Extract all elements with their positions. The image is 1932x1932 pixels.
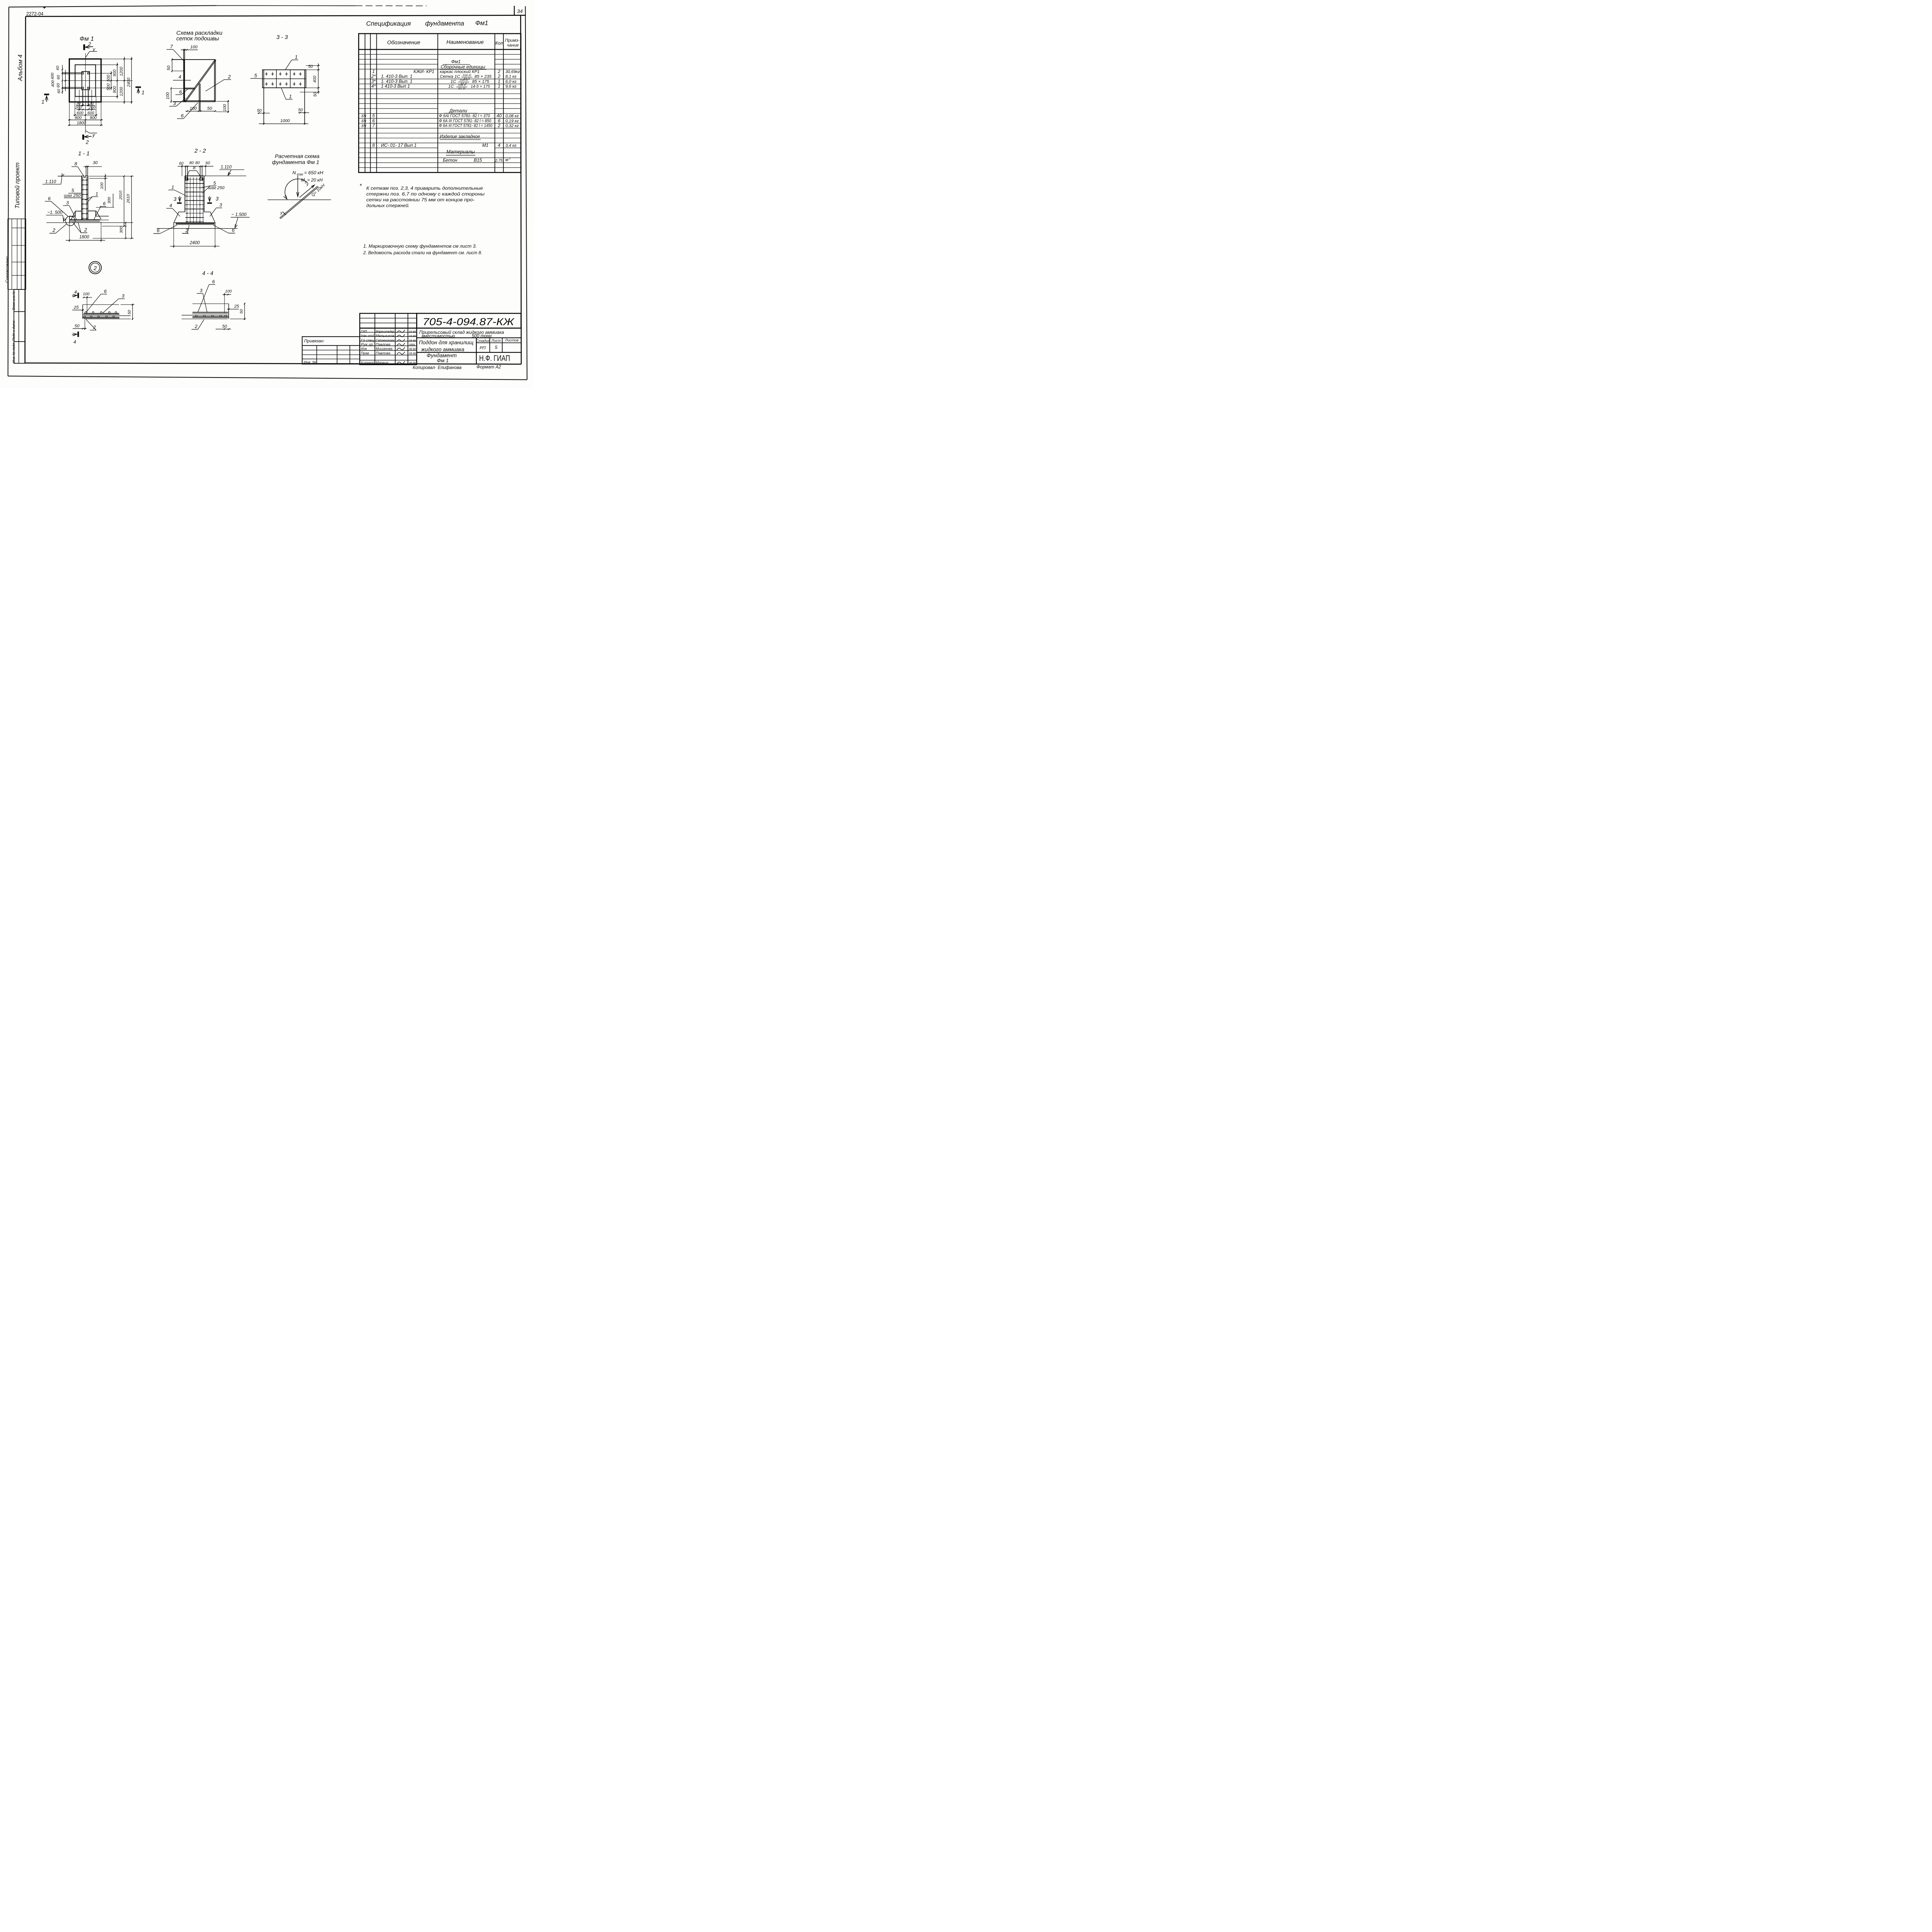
svg-text:6: 6 [212,279,215,284]
svg-text:М1: М1 [482,143,488,148]
svg-text:Маркин: Маркин [376,361,388,365]
svg-text:Спецификация: Спецификация [366,20,411,27]
svg-text:50: 50 [240,309,244,314]
calc scheme inclined axis [280,182,318,219]
svg-text:85 × 235: 85 × 235 [474,75,492,79]
detail 2 dim 100 [83,292,92,313]
svg-text:0,19 кг: 0,19 кг [505,119,519,123]
section 2-2 footing mesh slab [176,223,214,224]
svg-text:6: 6 [103,201,105,206]
svg-text:200: 200 [88,105,95,110]
title block Фундамент Фм1 [417,352,457,364]
svg-text:В15: В15 [474,157,482,163]
svg-text:34: 34 [517,9,523,14]
svg-text:3: 3 [219,202,222,207]
svg-text:705-4-094.87-КЖ: 705-4-094.87-КЖ [423,317,515,328]
svg-text:Инж: Инж [361,347,367,351]
svg-text:Поддон для хранилищ: Поддон для хранилищ [419,340,474,345]
mesh layout dim 50 left [167,58,184,72]
svg-text:Бетон: Бетон [443,157,457,163]
calc scheme force N [293,170,323,197]
plan axis centerline horizontal [63,80,103,82]
svg-text:Взам инв.№: Взам инв.№ [12,291,15,310]
svg-text:6: 6 [104,289,107,294]
svg-text:08 86: 08 86 [409,361,416,365]
svg-text:3*: 3* [371,79,376,84]
svg-text:400: 400 [51,73,55,80]
left margin table Согласовано [5,219,26,289]
svg-text:Лист: Лист [491,338,501,343]
section 4-4 label 6 [198,279,215,312]
svg-text:жидкого аммиака: жидкого аммиака [421,347,464,352]
svg-text:80: 80 [195,161,200,165]
svg-text:2010: 2010 [119,190,123,200]
svg-text:2: 2 [194,324,197,329]
plan left dimensions 60 400 60 [51,65,66,94]
svg-text:3: 3 [66,200,69,206]
detail 2 dim 50 bottom [73,320,87,330]
svg-text:Павлова: Павлова [376,343,390,347]
section 1-1 labels 5 шаг 250 and 1 [64,188,98,202]
svg-text:Маркштедер: Маркштедер [376,330,395,334]
title block staff labels [361,330,416,365]
svg-text:6: 6 [179,89,182,95]
section 1-1 dim 30 top [83,160,102,167]
svg-text:50: 50 [128,310,132,315]
svg-text:Мельников: Мельников [376,334,394,338]
svg-text:8: 8 [372,143,375,148]
svg-text:стержни поз. 6,7 по од: стержни поз. 6,7 по одному с каждой стор… [366,191,485,197]
plan foundation middle square [75,65,95,97]
svg-text:7: 7 [170,44,173,49]
svg-text:2: 2 [84,227,87,233]
svg-text:3: 3 [173,196,177,202]
svg-text:6: 6 [48,196,51,201]
svg-text:30: 30 [93,160,98,165]
svg-text:0,08 кг: 0,08 кг [505,114,519,119]
mesh layout label 6 [175,89,188,95]
svg-text:Инв. № подл: Инв. № подл [12,343,15,363]
svg-text:60: 60 [56,75,61,80]
svg-text:Прав: Прав [361,351,369,355]
svg-text:4: 4 [73,339,76,345]
title block project name [419,330,504,339]
plan anchor bolt tails left [62,73,82,88]
sheet outer border left [8,7,9,376]
svg-text:4*: 4* [371,84,376,89]
svg-text:Фм 1: Фм 1 [437,358,449,364]
svg-text:Расчетная схема: Расчетная схема [275,153,320,159]
section 1-1 dim 100 right top [89,174,107,191]
svg-text:1200: 1200 [119,67,124,76]
svg-text:Фм1: Фм1 [451,59,461,65]
svg-text:10А III: 10А III [459,78,468,82]
svg-text:2272-04: 2272-04 [26,11,43,17]
svg-text:у: у [306,182,309,187]
svg-text:сеток подошвы: сеток подошвы [176,36,219,42]
svg-text:8,1 кг: 8,1 кг [505,75,517,79]
svg-text:08 86: 08 86 [409,339,416,342]
section 1-1 elevation 1.110 [43,173,82,184]
section 2-2 label 1 left [168,184,185,196]
svg-text:08 86: 08 86 [409,352,416,355]
section 3-3 mesh rect [262,70,306,88]
svg-text:30: 30 [89,101,94,105]
svg-text:3: 3 [200,288,202,293]
svg-text:Согласовано: Согласовано [5,257,10,283]
section 1-1 label 6 right [94,201,106,219]
svg-text:400: 400 [51,80,55,87]
svg-text:50: 50 [313,92,318,97]
svg-text:Наименование: Наименование [446,39,484,45]
plan anchor bolts [82,73,89,89]
svg-text:N: N [293,170,296,175]
section 1-1 anchor bolts top [86,166,88,176]
sheet outer border bottom [8,376,527,379]
svg-text:Ф 6А III ГОСТ 5781- 82 l = 1: Ф 6А III ГОСТ 5781- 82 l = 1450 [439,124,492,128]
plan axis centerline vertical [85,51,97,133]
plan bottom dimensions 30 200 600 900 1800 [68,90,103,126]
detail 2 dim 25 [72,305,84,311]
svg-text:2: 2 [85,139,89,145]
section 2-2 footing trapezoid steps [174,212,215,223]
svg-text:1800: 1800 [79,235,89,240]
svg-text:8: 8 [193,165,196,170]
title block bottom labels [413,365,501,370]
section 1-1 footing steps [70,211,109,223]
svg-text:2. Ведомость расхода стал: 2. Ведомость расхода стали на фундамент … [363,250,482,255]
svg-text:50: 50 [222,324,227,329]
detail 2 label 2 [86,319,96,330]
drawing frame [25,15,526,364]
svg-text:ГИП: ГИП [361,330,367,334]
svg-text:Обозначение: Обозначение [387,39,420,45]
svg-text:60: 60 [56,66,60,70]
svg-text:Альбом 4: Альбом 4 [17,54,24,82]
detail 2 dim 50 right [121,304,134,320]
svg-text:Инв. №: Инв. № [304,360,316,364]
mesh layout dim 100 top [181,45,198,51]
left margin table Взам инв / Подп и дата / Инв № подл [12,289,25,363]
svg-text:6: 6 [498,118,500,123]
svg-text:2400: 2400 [127,78,131,87]
section 3-3 edge bars [264,70,305,124]
svg-text:5: 5 [213,180,216,186]
section 1-1 label 3 [63,200,77,219]
svg-text:*: * [359,183,362,189]
svg-text:1: 1 [141,90,145,95]
section 2-2 anchor bolts [185,167,202,180]
section 1-1 leader 2 bottom [73,222,87,233]
svg-text:100: 100 [223,104,227,111]
section 1-1 label 6 left [45,196,68,216]
svg-text:Листов: Листов [505,338,519,343]
svg-text:100: 100 [166,92,170,99]
svg-text:03.86: 03.86 [409,330,416,333]
page number box 34 [514,6,523,16]
svg-text:6: 6 [372,118,375,123]
section 1-1 detail circle [66,216,75,226]
mesh layout dim 100 left lower [166,87,184,103]
plan column rectangle [82,71,90,90]
numbered notes [363,243,482,255]
svg-text:Стадия: Стадия [476,339,490,343]
svg-text:Сапожникова: Сапожникова [376,338,394,343]
svg-text:Гл спец: Гл спец [361,338,374,343]
mesh layout label 6 bottom [177,103,198,119]
svg-text:6,0 кг: 6,0 кг [505,79,517,84]
section 4-4 dim 50 right [230,303,246,320]
plan section marker 1 left [41,94,49,105]
section 4-4 label 2 [192,320,204,329]
svg-text:5: 5 [495,345,498,350]
svg-text:БЧ: БЧ [362,124,367,128]
section 3-3 label 1 bottom [281,88,293,99]
Привязан table [302,337,360,364]
svg-text:у: у [92,133,95,138]
section 1-1 label 2 bottom left [49,224,66,233]
svg-text:шаг 250: шаг 250 [208,186,225,190]
svg-text:Материалы: Материалы [446,149,475,155]
svg-text:~1. 500: ~1. 500 [47,210,63,215]
section 2-2 footing slab outline [174,223,215,228]
section 2-2 mesh dots [186,179,200,222]
svg-text:Сборочные единицы: Сборочные единицы [440,64,485,70]
svg-text:1.110: 1.110 [221,165,232,170]
svg-text:0,32 кг: 0,32 кг [505,124,519,128]
svg-text:Фундамент: Фундамент [427,352,457,358]
calc scheme ground line [268,199,331,201]
calc scheme force Q [299,183,326,198]
svg-text:РП: РП [480,346,486,350]
svg-text:600: 600 [87,111,94,115]
mesh layout rod 7 vertical [184,49,185,102]
svg-text:100: 100 [83,292,90,296]
svg-text:2 - 2: 2 - 2 [194,148,206,154]
section 3-3 label 1 top [285,54,298,70]
section 1-1 anchor plate 8 [82,176,88,179]
svg-text:2: 2 [52,227,55,233]
svg-text:9,6 кг: 9,6 кг [505,84,517,89]
svg-text:Схема раскладки: Схема раскладки [176,30,222,36]
svg-text:4: 4 [498,143,500,148]
svg-text:1. 410-3 Вып. 1: 1. 410-3 Вып. 1 [381,74,412,79]
svg-text:у: у [280,211,283,215]
svg-text:~ 1.500: ~ 1.500 [231,212,247,217]
svg-text:40: 40 [497,114,502,119]
section 4-4 label 3 [197,288,207,312]
svg-text:400: 400 [313,76,317,83]
svg-text:900: 900 [90,116,97,120]
section 2-2 label 8 [187,165,201,177]
section 2-2 level -1.500 [156,212,250,228]
mesh layout label 4 [173,74,191,80]
svg-text:1: 1 [172,184,174,190]
svg-text:Нач отд: Нач отд [361,334,374,338]
section 3-3 bottom dims 50 50 1000 [257,108,309,124]
svg-text:10А III: 10А III [463,73,471,77]
section 1-1 dim 300 step right [96,194,114,207]
svg-text:100: 100 [225,289,232,294]
svg-text:25: 25 [73,305,79,310]
svg-text:4: 4 [179,74,181,80]
svg-text:2: 2 [93,265,97,272]
plan section marker 2 top [84,41,95,52]
svg-text:Подп и дата: Подп и дата [12,321,15,341]
section 1-1 footing mesh slab [70,220,109,221]
detail 2 section marker 4 bottom [72,332,78,345]
svg-text:60: 60 [206,161,210,165]
svg-text:Копировал· Епифанова: Копировал· Епифанова [413,365,462,370]
mesh layout diagonal mesh 2 [184,60,216,102]
section 2-2 column mesh [185,176,204,223]
svg-text:60: 60 [179,162,184,166]
svg-text:5: 5 [372,114,375,119]
section 3-3 label 5 [250,73,262,79]
svg-text:900: 900 [112,86,117,93]
section 4-4 dim 50 bottom [216,324,231,330]
svg-text:3,4 кг: 3,4 кг [505,143,517,148]
svg-text:4: 4 [74,289,77,295]
svg-text:2: 2 [497,69,500,74]
svg-text:КЖИ- КР1: КЖИ- КР1 [413,69,434,74]
section 1-1 level -1.500 [46,210,133,223]
svg-text:1С: 1С [448,84,454,89]
svg-text:2610: 2610 [126,194,131,203]
asterisk note [359,183,485,208]
mesh layout rod 2 vertical bar [199,83,200,111]
svg-text:300: 300 [119,226,124,233]
calc scheme moment My [284,178,323,199]
svg-text:1: 1 [95,191,98,197]
svg-text:25: 25 [234,304,239,309]
svg-text:Павлова: Павлова [376,351,390,355]
svg-text:фундамента: фундамента [425,20,464,27]
svg-text:Н контр: Н контр [361,361,374,365]
title block document number 705-4-094.87-КЖ [417,313,521,328]
mesh layout dim 100 right [216,100,229,113]
svg-text:500: 500 [106,83,111,90]
svg-text:3 - 3: 3 - 3 [276,34,288,41]
section 3-3 right dims 50 400 50 [300,63,320,97]
detail 2 section marker 4 top [72,289,78,298]
section 4-4 slab drawing [182,304,229,319]
svg-text:8: 8 [75,161,77,167]
svg-text:100: 100 [190,106,197,111]
detail 2 label 3 [103,293,125,313]
svg-text:Ф 6А III ГОСТ 5781- 82 l = 8: Ф 6А III ГОСТ 5781- 82 l = 850 [439,119,491,123]
svg-text:2: 2 [497,123,500,128]
mesh layout label 3 [169,98,185,106]
detail 2 label 6 [86,289,107,312]
svg-text:100: 100 [190,45,197,49]
section 2-2 elevation 1.110 right [204,165,247,176]
svg-text:2: 2 [228,74,231,80]
svg-text:каркас плоский КР1: каркас плоский КР1 [440,70,480,74]
svg-text:60: 60 [57,89,61,94]
svg-text:1С: 1С [451,79,456,84]
svg-text:80: 80 [189,161,194,165]
svg-text:6А III: 6А III [458,87,466,90]
mesh layout dim 100 bottom [185,106,200,112]
svg-text:900: 900 [112,70,117,77]
svg-text:ИС- 01- 17 Вып 1: ИС- 01- 17 Вып 1 [381,143,417,148]
svg-text:Примэ-: Примэ- [505,38,520,43]
svg-text:1: 1 [498,84,500,89]
svg-text:дольных стержней.: дольных стержней. [366,203,410,208]
svg-text:1. Маркировочную схему фу: 1. Маркировочную схему фундаментов см ли… [363,243,477,249]
svg-text:1. 410-3 Вып. 1: 1. 410-3 Вып. 1 [381,79,412,84]
svg-text:1: 1 [295,54,298,60]
svg-text:Кол: Кол [495,41,503,46]
section 2-2 dim 2400 [170,229,219,248]
detail 2 circle mark [89,262,101,274]
svg-text:БЧ: БЧ [362,119,367,123]
svg-text:1 410-3 Вып 1: 1 410-3 Вып 1 [381,84,410,89]
sheet outer border top [9,5,427,9]
title block Стадия Лист Листов [417,338,521,364]
section 2-2 labels 5 шаг 250 [201,180,225,193]
svg-text:фундамента Фм 1: фундамента Фм 1 [272,159,319,165]
svg-text:300: 300 [107,197,112,204]
section 1-1 dims 2010 2610 right [88,175,134,239]
section 1-1 dim 300 bottom right [119,222,126,239]
svg-text:30,69кг: 30,69кг [505,70,520,74]
svg-text:чание: чание [507,43,519,48]
svg-text:2*: 2* [371,74,376,79]
section 2-2 label 3 right [210,202,222,216]
svg-text:Ф 6АI ГОСТ 5781- 82 l = 370: Ф 6АI ГОСТ 5781- 82 l = 370 [439,114,490,118]
section 1-1 label 8 [71,161,83,175]
svg-text:1200: 1200 [119,87,124,96]
svg-text:08 80: 08 80 [409,347,416,351]
plan section marker 1 right [136,87,145,95]
svg-text:1 - 1: 1 - 1 [78,151,90,157]
svg-text:10А II: 10А II [458,83,466,87]
plan section marker 2 bottom [83,131,97,145]
section 1-1 dim 1800 bottom [66,222,105,242]
svg-text:сетки на расстоянии 75: сетки на расстоянии 75 мм от концов про- [366,197,474,202]
svg-text:1: 1 [498,79,500,84]
section 3-3 rebar cross marks [265,72,301,86]
svg-text:4 - 4: 4 - 4 [202,270,213,277]
svg-text:1: 1 [41,99,44,105]
svg-text:03.86: 03.86 [409,334,416,338]
svg-text:900: 900 [75,116,82,120]
svg-text:2: 2 [497,74,500,79]
svg-text:Н.Ф. ГИАП: Н.Ф. ГИАП [479,354,510,363]
svg-text:50: 50 [207,106,212,111]
svg-text:Изделие закладное: Изделие закладное [440,134,480,139]
svg-text:100: 100 [100,182,104,189]
svg-text:1000: 1000 [280,119,290,123]
svg-text:50: 50 [75,324,80,328]
plan right dimensions 500 900 1200 2400 [90,57,133,104]
svg-text:200: 200 [75,105,82,110]
title block staff table grid [360,313,521,365]
svg-text:Сетка 1С: Сетка 1С [440,75,460,79]
section 2-2 view markers 3 [173,196,219,203]
svg-text:7: 7 [372,123,375,128]
mesh layout rod 6 horizontal [185,88,195,89]
section 2-2 top dims 60 80 80 60 [178,161,213,176]
svg-text:3: 3 [122,293,124,299]
title block sheet name Поддон [417,338,521,352]
svg-text:30: 30 [76,101,81,105]
svg-text:шаг 250: шаг 250 [64,194,81,198]
svg-text:Фм 1: Фм 1 [80,36,94,43]
svg-text:Типовой проект: Типовой проект [14,162,21,209]
